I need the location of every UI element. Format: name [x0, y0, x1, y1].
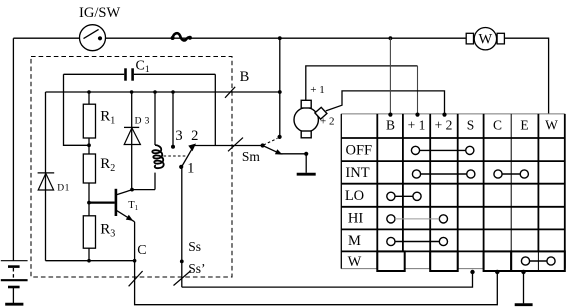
- wire contact2 to Sm: [194, 145, 263, 147]
- wire C1 left branch down to R1-R2 node: [64, 74, 90, 145]
- svg-text:C: C: [137, 243, 146, 258]
- wire B vertical (top rail to Sm contact): [279, 38, 281, 137]
- wire left vertical from battery: [12, 38, 14, 261]
- switch Sm: [261, 135, 283, 155]
- svg-text:INT: INT: [345, 165, 369, 181]
- node junction table +2 top: [442, 113, 446, 117]
- table left edge: [340, 114, 342, 269]
- wire bottom rail: [46, 260, 135, 262]
- resistor R3: [83, 216, 115, 261]
- svg-text:IG/SW: IG/SW: [79, 5, 120, 21]
- wire motor bottom to ground: [305, 154, 307, 173]
- connector C slash: [129, 271, 143, 286]
- node junction rail contact3: [171, 90, 175, 94]
- switch row OFF contacts: [411, 146, 474, 154]
- motor W washer: [466, 28, 504, 50]
- table row labels: [345, 142, 372, 270]
- ground motor: [297, 173, 316, 176]
- switch row INT contacts C E: [494, 170, 529, 178]
- ground battery: [5, 303, 23, 306]
- svg-text:W: W: [348, 254, 362, 270]
- svg-text:+ 2: + 2: [435, 118, 453, 133]
- svg-text:+ 1: + 1: [310, 84, 324, 96]
- ground E: [515, 303, 533, 306]
- svg-text:1: 1: [187, 160, 194, 176]
- table W-row terminal box C: [484, 251, 512, 271]
- svg-text:M: M: [348, 233, 361, 249]
- node junction collector D3 coil: [130, 188, 134, 192]
- svg-text:3: 3: [175, 128, 182, 144]
- wire Sm arm to motor: [281, 153, 307, 155]
- wire C1 right branch down to contact wire: [214, 74, 216, 145]
- svg-text:Sm: Sm: [242, 149, 261, 164]
- node junction table S bottom: [470, 270, 474, 274]
- table outer top thin line: [341, 113, 565, 115]
- node junction B-vertical rail: [278, 90, 282, 94]
- connector Sm slash: [228, 138, 243, 152]
- svg-text:C: C: [493, 118, 502, 133]
- node junction rail D3: [130, 90, 134, 94]
- svg-text:D 3: D 3: [135, 117, 150, 127]
- wire emitter down: [134, 222, 136, 261]
- diode D3: [124, 92, 150, 190]
- table W-row terminal box +2: [430, 251, 458, 271]
- table W-row terminal box B: [377, 251, 404, 271]
- wire motor +2 to table: [326, 91, 445, 114]
- node junction R3 bottom: [87, 259, 91, 263]
- node Ss dot: [180, 260, 184, 264]
- resistor R1: [83, 92, 115, 154]
- diode D1: [38, 92, 70, 261]
- svg-text:D1: D1: [57, 183, 70, 193]
- svg-text:S: S: [467, 118, 475, 133]
- wire motor +1 to table: [306, 66, 418, 100]
- control unit dashed box: [31, 57, 232, 278]
- svg-text:OFF: OFF: [345, 142, 372, 158]
- svg-text:B: B: [240, 69, 250, 85]
- relay contact 3: [171, 92, 183, 149]
- svg-text:Ss’: Ss’: [188, 261, 205, 276]
- svg-text:LO: LO: [345, 188, 364, 204]
- relay contact 2: [191, 128, 198, 144]
- connector Ss' slash: [174, 271, 192, 286]
- wire top rail mid segment: [105, 37, 466, 39]
- switch IG/SW: [79, 5, 120, 51]
- connector B slash: [225, 87, 235, 98]
- relay arm pivot 1: [179, 144, 196, 177]
- svg-text:2: 2: [191, 128, 198, 144]
- capacitor C1: [64, 59, 216, 81]
- switch row HI contacts: [387, 215, 448, 223]
- node junction table +1 top: [415, 113, 419, 117]
- motor M wiper: [294, 84, 334, 138]
- svg-text:Ss: Ss: [188, 239, 201, 254]
- svg-text:+ 2: + 2: [320, 115, 334, 127]
- fuse F: [171, 33, 192, 40]
- table W-row terminal box E: [511, 251, 565, 271]
- resistor R2: [83, 154, 115, 216]
- svg-text:B: B: [386, 118, 395, 133]
- node junction rail R1: [87, 90, 91, 94]
- connector Ss wire from relay arm: [182, 168, 473, 288]
- relay coil: [132, 92, 164, 190]
- table bottom thin line: [341, 268, 565, 270]
- node junction rail coil: [153, 90, 157, 94]
- table header labels: [386, 118, 558, 133]
- node junction emitter bottom: [133, 259, 137, 263]
- node junction table E bottom: [521, 270, 525, 274]
- wire B column vertical: [389, 38, 391, 114]
- svg-text:W: W: [479, 32, 493, 48]
- switch row LO contacts: [387, 192, 421, 200]
- battery: [1, 261, 28, 303]
- wire top rail left segment: [13, 37, 79, 39]
- svg-text:W: W: [545, 118, 558, 133]
- node junction table C bottom: [495, 270, 499, 274]
- node junction motor bottom: [304, 152, 308, 156]
- svg-text:+ 1: + 1: [408, 118, 426, 133]
- node junction R2-R3 base: [87, 201, 91, 205]
- svg-text:E: E: [520, 118, 528, 133]
- switch row M contacts: [387, 237, 448, 245]
- dashed mechanical link coil-arm: [164, 155, 188, 157]
- switch row W contacts: [521, 257, 555, 265]
- svg-text:HI: HI: [348, 210, 363, 226]
- node junction top rail to B vertical: [278, 36, 282, 40]
- wire node-B rail inside box: [46, 91, 280, 93]
- node junction top rail to table B: [389, 36, 393, 40]
- table grid verticals: [377, 114, 565, 269]
- wire W motor to table W column: [504, 38, 548, 114]
- table grid horizontals: [341, 138, 565, 251]
- table W-row inner divider E/W: [537, 251, 539, 271]
- transistor T1: [89, 189, 139, 222]
- node junction R1-R2-C1: [87, 143, 91, 147]
- node junction table B top: [388, 113, 392, 117]
- switch row INT contacts +1 S: [412, 170, 475, 178]
- wire E to ground: [523, 272, 525, 303]
- connector C wire to table: [135, 261, 498, 305]
